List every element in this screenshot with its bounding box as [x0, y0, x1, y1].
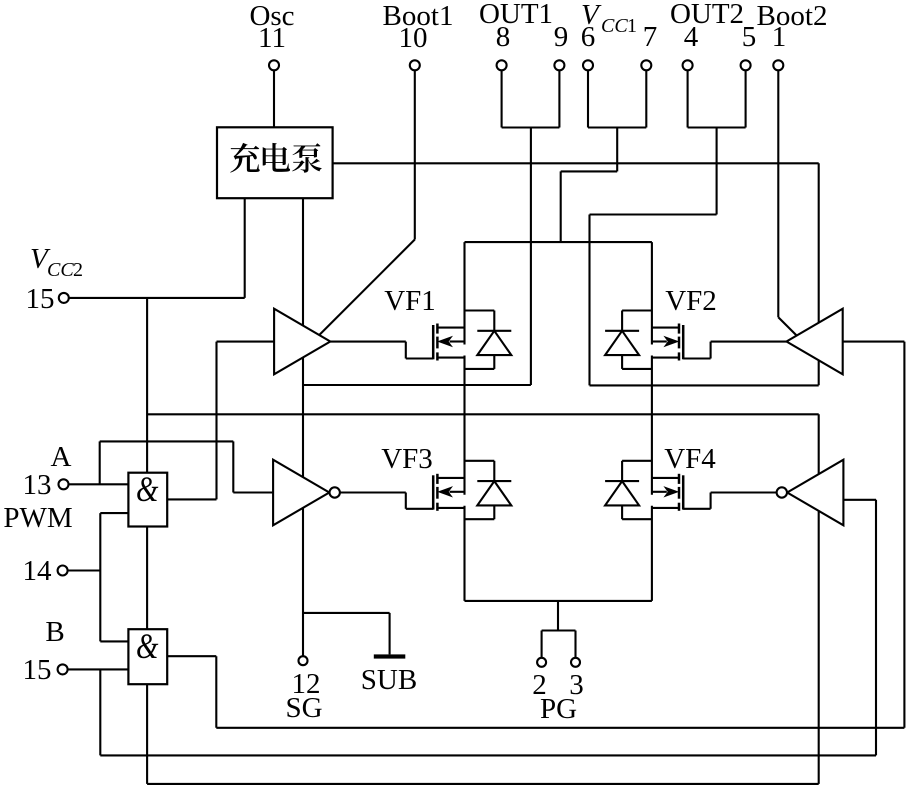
transistor VF2 gate bar — [682, 325, 685, 359]
node B: pin 15 wire — [67, 668, 128, 670]
svg-text:6: 6 — [581, 21, 596, 53]
VD1 diode triangle — [477, 331, 511, 355]
svg-text:B: B — [45, 616, 64, 648]
wire: right leg rail lower (to PG) — [651, 506, 653, 601]
VD2 body-diode loop top — [622, 309, 652, 311]
node PWM: pin 14 wire — [67, 569, 100, 571]
VD3 diode triangle — [477, 481, 511, 505]
wire: OUT1 bracket — [502, 126, 560, 128]
svg-text:A: A — [51, 441, 72, 473]
wire: PG drop — [557, 601, 559, 631]
wire: right leg rail upper (VCC1 to VF2) — [651, 242, 653, 344]
wire: left leg rail upper (VCC1 to VF1) — [463, 242, 465, 344]
wire: VCC1 pin 7 lead — [645, 70, 647, 127]
wire: driver U2 input stub — [842, 341, 904, 343]
wire: VCC1 drop — [616, 128, 618, 172]
svg-text:SG: SG — [285, 692, 322, 724]
transistor VF1 channel bar — [436, 324, 439, 334]
wire: OUT1 pin 8 lead — [501, 70, 503, 127]
transistor VF3 body arrow — [450, 491, 465, 493]
transistor VF2 channel bar — [678, 324, 681, 334]
wire: AND1 input-2 stub — [100, 512, 128, 514]
transistor VF4 drain stub — [652, 477, 679, 479]
wire: Boot2 diagonal into driver U2 — [778, 317, 803, 342]
driver U1 triangle — [274, 309, 330, 375]
svg-text:4: 4 — [684, 21, 699, 53]
transistor VF4 source stub — [652, 507, 679, 509]
svg-text:CC: CC — [601, 15, 628, 37]
wire: PWM vertical to both AND gates — [99, 513, 101, 641]
wire: PG bracket — [542, 629, 576, 631]
VD3 body-diode loop bottom — [465, 518, 495, 520]
wire: Boot1 diagonal into driver U1 — [313, 240, 415, 342]
VD2 body-diode loop bottom — [622, 368, 652, 370]
VD4 cathode lead — [621, 461, 623, 481]
svg-text:1: 1 — [627, 15, 637, 37]
wire: driver U3 output to VF3 gate — [340, 491, 406, 493]
wire: VCC2 long horizontal — [147, 413, 819, 415]
node OUT2 pin 5 terminal — [741, 60, 751, 70]
node Osc pin 11 terminal — [269, 60, 279, 70]
node PG pin 3 terminal — [571, 658, 580, 667]
wire: OUT2 bracket — [688, 126, 746, 128]
svg-text:1: 1 — [772, 21, 787, 53]
transistor VF1 body arrow — [450, 340, 465, 342]
svg-text:13: 13 — [23, 469, 52, 501]
wire: VCC2 bottom horizontal to AND2 supply pin — [147, 783, 819, 785]
wire: PG pin 2 lead — [541, 631, 543, 658]
svg-text:VF2: VF2 — [665, 285, 717, 317]
wire: driver U3 input — [233, 491, 274, 493]
wire: OUT2 pin 5 lead — [745, 70, 747, 127]
node OUT1 pin 8 terminal — [497, 60, 507, 70]
VD3 anode lead — [493, 505, 495, 519]
label VCC2 — [30, 243, 83, 281]
wire: VCC2 distribution vertical right side — [818, 414, 820, 784]
VD3 cathode lead — [493, 461, 495, 481]
svg-text:11: 11 — [258, 22, 286, 54]
VD4 cathode bar — [605, 480, 639, 482]
transistor VF2 drain stub — [652, 327, 679, 329]
svg-text:14: 14 — [23, 555, 53, 587]
svg-text:7: 7 — [643, 21, 658, 53]
wire: SUB branch vertical — [389, 613, 391, 655]
AND gate D2 box — [128, 629, 167, 684]
svg-text:&: & — [136, 627, 159, 667]
node A: pin 13 wire — [68, 483, 128, 485]
VD2 anode lead — [621, 355, 623, 369]
AND gate D1 box — [128, 473, 167, 527]
svg-text:8: 8 — [496, 21, 511, 53]
node Boot1: pin 10 lead — [414, 70, 416, 239]
svg-text:5: 5 — [742, 21, 757, 53]
transistor VF2 body arrow — [652, 340, 667, 342]
wire: driver U1 output to VF1 gate — [330, 341, 406, 343]
driver U3 triangle — [273, 460, 329, 526]
wire: left leg rail lower (to PG) — [463, 506, 465, 601]
svg-text:15: 15 — [26, 283, 55, 315]
svg-text:PWM: PWM — [3, 502, 72, 534]
wire: PG pin 3 lead — [574, 631, 576, 658]
wire: driver U1 input — [217, 341, 275, 343]
svg-text:VF4: VF4 — [664, 443, 716, 475]
VD3 body-diode loop top — [465, 460, 495, 462]
wire: B branch down — [99, 669, 101, 755]
wire: B long horizontal to driver U4 — [100, 754, 876, 756]
wire: VCC1 pin 6 lead — [587, 70, 589, 127]
wire: charge pump to SG vertical — [302, 198, 304, 656]
driver U2 triangle — [787, 309, 843, 375]
svg-text:Boot2: Boot2 — [757, 0, 828, 32]
wire: vertical from charge pump line down to OUT2 net — [818, 163, 820, 385]
node PWM pin 14 terminal — [58, 566, 68, 576]
wire: OUT1 pin 9 lead — [558, 70, 560, 127]
wire: AND2 long horizontal to driver U2 — [216, 727, 904, 729]
wire: OUT1 horizontal to left leg rail — [303, 384, 531, 386]
VD1 body-diode loop bottom — [465, 368, 495, 370]
VD4 body-diode loop bottom — [622, 518, 652, 520]
wire: OUT2 jog left — [590, 213, 717, 215]
node Osc: pin 11 lead — [273, 70, 275, 127]
transistor VF1 gate bar — [432, 325, 435, 359]
svg-text:10: 10 — [399, 22, 428, 54]
svg-text:&: & — [136, 470, 159, 510]
VD3 cathode bar — [477, 480, 511, 482]
wire: OUT2 vertical — [588, 215, 590, 386]
node OUT2 pin 4 terminal — [683, 60, 693, 70]
node SG pin 12 terminal — [299, 656, 308, 665]
transistor VF4 channel bar — [678, 474, 681, 484]
wire: driver U4 input stub — [842, 499, 876, 501]
wire: SUB branch horizontal — [303, 612, 390, 614]
VD1 body-diode loop top — [465, 309, 495, 311]
wire: VCC2 vertical through AND gates — [146, 298, 148, 784]
wire: A branch up — [99, 441, 101, 484]
transistor VF1 source stub — [437, 357, 464, 359]
wire: driver U2 output to VF2 gate — [711, 341, 787, 343]
wire: vertical up to driver U4 input — [875, 500, 877, 756]
svg-text:OUT2: OUT2 — [670, 0, 744, 30]
wire: vertical up to driver U2 input — [903, 342, 905, 728]
node VCC2 pin 15 terminal — [59, 293, 69, 303]
svg-text:VF3: VF3 — [381, 443, 433, 475]
wire: bridge bottom rail — [465, 600, 652, 602]
driver U4 inverting bubble — [777, 487, 787, 497]
charge pump label 充电泵 (glyph outlines) — [230, 143, 322, 173]
wire: VCC1 drain rail horizontal — [465, 241, 652, 243]
node VCC2: pin 15 wire — [68, 297, 244, 299]
SUB substrate bar — [374, 654, 406, 658]
wire: OUT2 horizontal to right leg rail — [590, 384, 819, 386]
transistor VF4 gate bar — [682, 475, 685, 509]
wire: OUT1 drop to bridge — [530, 128, 532, 386]
transistor VF3 gate bar — [432, 475, 435, 509]
wire: AND2 input-1 stub — [100, 640, 128, 642]
wire: charge pump output rail to right — [333, 162, 819, 164]
svg-text:PG: PG — [540, 693, 577, 725]
node Boot2: pin 1 lead — [777, 70, 779, 317]
svg-text:15: 15 — [23, 654, 52, 686]
wire: OUT2 drop — [716, 128, 718, 215]
wire: A horizontal over AND1 — [100, 440, 234, 442]
transistor VF3 source stub — [437, 507, 464, 509]
transistor VF1 drain stub — [437, 327, 464, 329]
VD4 body-diode loop top — [622, 460, 652, 462]
svg-text:9: 9 — [554, 21, 569, 53]
VD1 anode lead — [493, 355, 495, 369]
wire: driver U4 output to VF4 gate — [711, 491, 777, 493]
node B pin 15 terminal — [58, 664, 68, 674]
node OUT1 pin 9 terminal — [554, 60, 564, 70]
transistor VF4 body arrow — [652, 491, 667, 493]
VD4 anode lead — [621, 505, 623, 519]
transistor VF2 source stub — [652, 357, 679, 359]
node PG pin 2 terminal — [537, 658, 546, 667]
wire: AND1 output — [167, 498, 216, 500]
node VCC1 pin 6 terminal — [583, 60, 593, 70]
svg-text:2: 2 — [73, 259, 83, 281]
label VCC1 — [581, 0, 637, 37]
wire: VCC1 drop to drain rail — [560, 171, 562, 242]
VD2 diode triangle — [605, 331, 639, 355]
VD2 cathode lead — [621, 311, 623, 331]
wire: drop to driver U3 input — [232, 441, 234, 492]
VD1 cathode bar — [477, 330, 511, 332]
wire: AND2 output — [167, 655, 216, 657]
node A pin 13 terminal — [59, 479, 69, 489]
node VCC1 pin 7 terminal — [641, 60, 651, 70]
VD2 cathode bar — [605, 330, 639, 332]
svg-text:CC: CC — [47, 259, 74, 281]
transistor VF3 channel bar — [436, 474, 439, 484]
wire: left leg rail middle (OUT1 node) — [463, 356, 465, 495]
VD4 diode triangle — [605, 481, 639, 505]
wire: VCC1 bracket — [588, 126, 646, 128]
VD1 cathode lead — [493, 311, 495, 331]
wire: charge pump VCC2 feed vertical — [244, 198, 246, 298]
svg-text:VF1: VF1 — [384, 285, 436, 317]
node Boot1 pin 10 terminal — [410, 60, 420, 70]
driver U3 inverting bubble — [330, 487, 340, 497]
driver U4 triangle — [787, 460, 843, 526]
svg-text:OUT1: OUT1 — [479, 0, 553, 30]
node Boot2 pin 1 terminal — [773, 60, 783, 70]
transistor VF3 drain stub — [437, 477, 464, 479]
svg-text:SUB: SUB — [361, 664, 417, 696]
wire: right leg rail middle (OUT2 node) — [651, 356, 653, 495]
wire: AND2 output down — [215, 656, 217, 728]
wire: OUT2 pin 4 lead — [687, 70, 689, 127]
wire: VCC1 jog left — [561, 170, 618, 172]
wire: AND1 output up to driver U1 — [215, 342, 217, 500]
charge pump block — [217, 127, 333, 198]
